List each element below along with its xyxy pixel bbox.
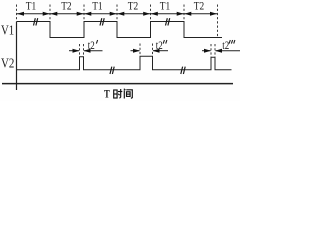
svg-text:V2: V2: [1, 57, 14, 72]
svg-text:T1: T1: [26, 1, 37, 13]
svg-text:t2: t2: [156, 38, 163, 52]
svg-text:t2: t2: [222, 38, 229, 52]
svg-text:V1: V1: [1, 24, 14, 39]
svg-text:T1: T1: [92, 1, 103, 13]
svg-text:t2: t2: [88, 38, 95, 52]
svg-text:T2: T2: [128, 1, 139, 13]
svg-text:T: T: [104, 87, 110, 101]
svg-text:T1: T1: [160, 1, 171, 13]
svg-text:T2: T2: [194, 1, 205, 13]
svg-text:T2: T2: [61, 1, 72, 13]
